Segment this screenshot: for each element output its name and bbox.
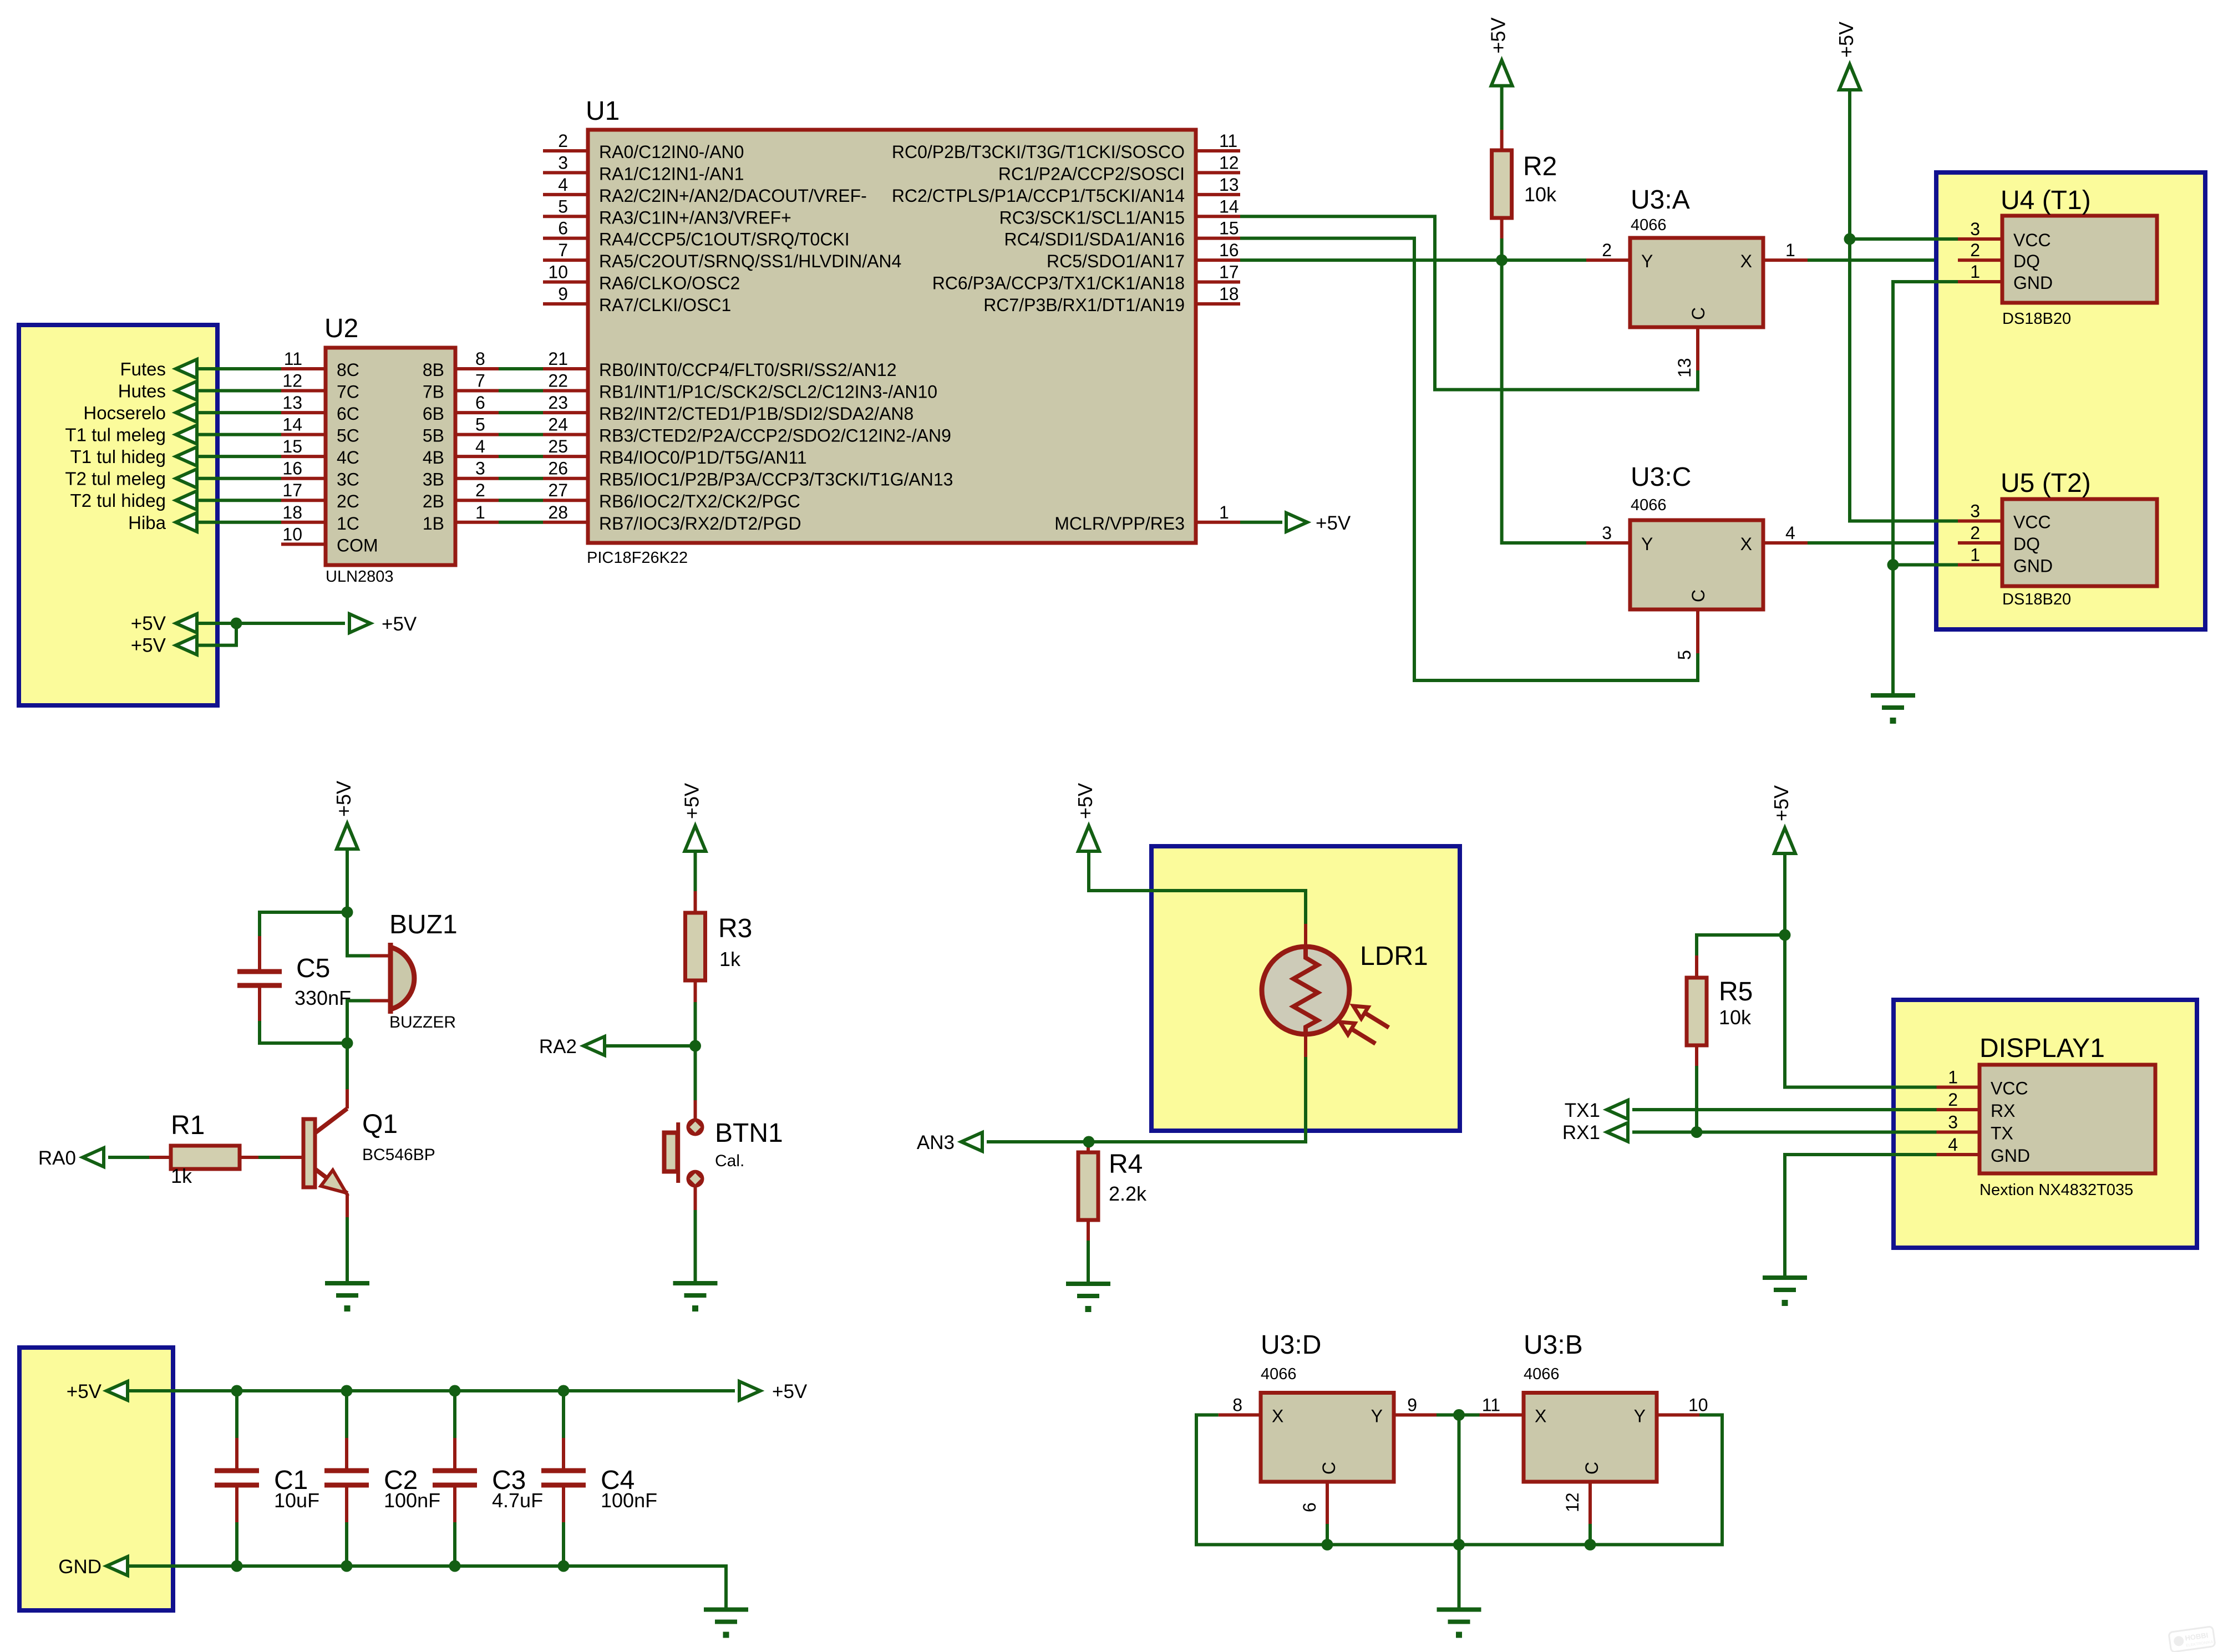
svg-text:12: 12 [282,371,302,391]
svg-text:RA1/C12IN1-/AN1: RA1/C12IN1-/AN1 [599,164,744,184]
svg-text:U5 (T2): U5 (T2) [2001,469,2091,498]
svg-text:14: 14 [1219,196,1239,216]
svg-text:Y: Y [1371,1406,1383,1426]
svg-text:4C: 4C [337,448,359,467]
svg-text:6: 6 [475,393,485,413]
svg-text:Q1: Q1 [362,1110,398,1139]
svg-text:4066: 4066 [1261,1365,1297,1383]
svg-text:5C: 5C [337,426,359,446]
svg-text:1: 1 [1970,545,1980,565]
svg-text:6C: 6C [337,404,359,424]
svg-text:U3:A: U3:A [1631,185,1690,215]
svg-text:2C: 2C [337,491,359,511]
svg-text:RA0: RA0 [38,1147,76,1169]
svg-text:2: 2 [1948,1090,1958,1110]
svg-text:13: 13 [1674,358,1694,378]
svg-text:RB0/INT0/CCP4/FLT0/SRI/SS2/AN1: RB0/INT0/CCP4/FLT0/SRI/SS2/AN12 [599,360,896,380]
svg-text:+5V: +5V [772,1381,808,1402]
svg-text:Hiba: Hiba [128,512,166,533]
svg-text:3C: 3C [337,470,359,490]
svg-text:5: 5 [1674,650,1694,660]
svg-text:BUZ1: BUZ1 [389,910,458,939]
svg-text:Hocserelo: Hocserelo [83,403,166,423]
svg-text:4: 4 [558,175,568,195]
svg-text:6: 6 [558,218,568,238]
svg-text:5B: 5B [423,426,444,446]
svg-text:4: 4 [1948,1135,1958,1155]
svg-text:X: X [1740,534,1752,554]
svg-text:R2: R2 [1523,152,1557,181]
svg-text:VCC: VCC [2013,230,2051,250]
svg-text:+5V: +5V [1074,783,1097,819]
svg-text:1: 1 [475,502,485,522]
svg-text:PIC18F26K22: PIC18F26K22 [587,549,688,567]
svg-text:U4 (T1): U4 (T1) [2001,186,2091,215]
svg-text:X: X [1740,251,1752,271]
svg-text:12: 12 [1219,153,1239,172]
svg-text:TX1: TX1 [1565,1100,1600,1121]
svg-text:5: 5 [475,415,485,435]
svg-text:C: C [1319,1462,1339,1475]
svg-text:8B: 8B [423,360,444,380]
svg-text:1: 1 [1219,502,1229,522]
svg-text:RC7/P3B/RX1/DT1/AN19: RC7/P3B/RX1/DT1/AN19 [983,295,1185,315]
svg-text:MCLR/VPP/RE3: MCLR/VPP/RE3 [1054,514,1185,533]
svg-text:U3:C: U3:C [1631,462,1691,492]
svg-text:Y: Y [1634,1406,1646,1426]
svg-text:Cal.: Cal. [715,1152,744,1170]
svg-text:DQ: DQ [2013,251,2040,271]
svg-text:U2: U2 [324,314,358,343]
svg-text:16: 16 [1219,240,1239,260]
svg-text:Futes: Futes [120,359,166,379]
svg-text:18: 18 [1219,284,1239,304]
svg-text:X: X [1272,1406,1283,1426]
svg-text:R1: R1 [171,1111,205,1140]
svg-text:RA4/CCP5/C1OUT/SRQ/T0CKI: RA4/CCP5/C1OUT/SRQ/T0CKI [599,230,850,250]
svg-text:LDR1: LDR1 [1360,942,1428,971]
svg-text:U1: U1 [586,96,620,126]
svg-text:VCC: VCC [2013,512,2051,532]
svg-text:RA2: RA2 [539,1036,577,1058]
svg-text:+5V: +5V [1316,512,1351,534]
svg-text:RC5/SDO1/AN17: RC5/SDO1/AN17 [1047,251,1185,271]
svg-text:4066: 4066 [1631,216,1667,234]
svg-text:24: 24 [548,415,568,435]
svg-text:C: C [1688,307,1708,320]
svg-text:U3:B: U3:B [1524,1330,1583,1360]
svg-text:RB2/INT2/CTED1/P1B/SDI2/SDA2/A: RB2/INT2/CTED1/P1B/SDI2/SDA2/AN8 [599,404,913,424]
svg-text:DISPLAY1: DISPLAY1 [1980,1034,2105,1063]
svg-text:2: 2 [1970,240,1980,260]
svg-text:DS18B20: DS18B20 [2002,591,2071,608]
svg-text:Y: Y [1641,534,1653,554]
svg-text:R5: R5 [1719,977,1753,1007]
svg-text:17: 17 [282,480,302,500]
svg-text:R4: R4 [1109,1150,1143,1179]
svg-text:RA3/C1IN+/AN3/VREF+: RA3/C1IN+/AN3/VREF+ [599,207,791,227]
svg-text:7C: 7C [337,382,359,402]
svg-text:BTN1: BTN1 [715,1119,783,1148]
svg-text:12: 12 [1562,1492,1582,1512]
svg-text:+5V: +5V [131,635,166,657]
svg-text:10uF: 10uF [274,1489,319,1512]
svg-text:RA7/CLKI/OSC1: RA7/CLKI/OSC1 [599,295,731,315]
svg-text:T1 tul meleg: T1 tul meleg [65,425,166,445]
svg-text:X: X [1535,1406,1546,1426]
svg-text:3: 3 [475,459,485,479]
svg-text:RA5/C2OUT/SRNQ/SS1/HLVDIN/AN4: RA5/C2OUT/SRNQ/SS1/HLVDIN/AN4 [599,251,901,271]
svg-text:8: 8 [1232,1395,1242,1415]
svg-text:RB7/IOC3/RX2/DT2/PGD: RB7/IOC3/RX2/DT2/PGD [599,514,801,533]
svg-text:RA6/CLKO/OSC2: RA6/CLKO/OSC2 [599,273,740,293]
svg-text:1: 1 [1785,240,1795,260]
svg-text:T2 tul meleg: T2 tul meleg [65,469,166,489]
svg-text:3: 3 [558,153,568,172]
svg-text:2: 2 [1970,523,1980,543]
svg-text:16: 16 [282,459,302,479]
svg-text:ULN2803: ULN2803 [326,568,394,586]
svg-text:3: 3 [1970,219,1980,239]
svg-text:C: C [1688,589,1708,602]
svg-text:2B: 2B [423,491,444,511]
svg-text:VCC: VCC [1991,1079,2028,1099]
svg-text:1B: 1B [423,514,444,533]
svg-text:1C: 1C [337,514,359,533]
svg-text:RC4/SDI1/SDA1/AN16: RC4/SDI1/SDA1/AN16 [1004,230,1185,250]
svg-text:RC3/SCK1/SCL1/AN15: RC3/SCK1/SCL1/AN15 [999,207,1185,227]
svg-text:RB5/IOC1/P2B/P3A/CCP3/T3CKI/T1: RB5/IOC1/P2B/P3A/CCP3/T3CKI/T1G/AN13 [599,470,953,490]
svg-text:2.2k: 2.2k [1109,1182,1147,1205]
svg-text:11: 11 [1482,1395,1500,1415]
svg-text:RB3/CTED2/P2A/CCP2/SDO2/C12IN2: RB3/CTED2/P2A/CCP2/SDO2/C12IN2-/AN9 [599,426,951,446]
svg-text:3: 3 [1970,501,1980,521]
svg-text:15: 15 [1219,218,1239,238]
svg-text:4: 4 [475,436,485,456]
svg-text:13: 13 [1219,175,1239,195]
svg-text:+5V: +5V [332,781,355,817]
svg-text:RC6/P3A/CCP3/TX1/CK1/AN18: RC6/P3A/CCP3/TX1/CK1/AN18 [932,273,1185,293]
svg-text:GND: GND [2013,556,2053,576]
svg-text:COM: COM [337,535,378,555]
svg-text:RB1/INT1/P1C/SCK2/SCL2/C12IN3-: RB1/INT1/P1C/SCK2/SCL2/C12IN3-/AN10 [599,382,937,402]
svg-text:11: 11 [284,349,302,369]
svg-text:RC0/P2B/T3CKI/T3G/T1CKI/SOSCO: RC0/P2B/T3CKI/T3G/T1CKI/SOSCO [892,142,1185,162]
svg-text:9: 9 [1407,1395,1417,1415]
svg-text:21: 21 [548,349,568,369]
svg-text:RX1: RX1 [1562,1122,1600,1143]
svg-text:RC1/P2A/CCP2/SOSCI: RC1/P2A/CCP2/SOSCI [998,164,1185,184]
svg-text:RB4/IOC0/P1D/T5G/AN11: RB4/IOC0/P1D/T5G/AN11 [599,448,807,467]
svg-text:T2 tul hideg: T2 tul hideg [70,490,166,511]
svg-text:+5V: +5V [681,783,703,819]
svg-text:DQ: DQ [2013,534,2040,554]
svg-text:RX: RX [1991,1101,2015,1121]
svg-text:7: 7 [558,240,568,260]
svg-text:27: 27 [548,480,568,500]
svg-text:C5: C5 [296,954,330,983]
svg-text:T1 tul hideg: T1 tul hideg [70,446,166,467]
svg-text:100nF: 100nF [384,1489,440,1512]
svg-text:+5V: +5V [382,613,417,635]
svg-text:+5V: +5V [131,613,166,634]
svg-text:4.7uF: 4.7uF [492,1489,543,1512]
svg-text:1: 1 [1970,262,1980,282]
svg-text:DS18B20: DS18B20 [2002,310,2071,328]
svg-text:10: 10 [548,262,568,282]
svg-text:AN3: AN3 [917,1132,955,1153]
svg-text:18: 18 [282,502,302,522]
svg-text:TX: TX [1991,1124,2013,1143]
svg-text:2: 2 [558,131,568,151]
svg-text:1k: 1k [719,948,741,970]
svg-text:25: 25 [548,436,568,456]
svg-text:15: 15 [282,436,302,456]
svg-text:+5V: +5V [67,1381,102,1402]
svg-text:1: 1 [1948,1068,1958,1087]
svg-text:28: 28 [548,502,568,522]
svg-text:Hutes: Hutes [118,381,166,401]
svg-text:GND: GND [1991,1146,2030,1166]
svg-text:5: 5 [558,196,568,216]
svg-text:C: C [1582,1462,1602,1475]
svg-text:BUZZER: BUZZER [389,1013,456,1031]
svg-text:10: 10 [282,524,302,544]
svg-text:17: 17 [1219,262,1239,282]
svg-text:R3: R3 [718,914,752,943]
svg-text:RA2/C2IN+/AN2/DACOUT/VREF-: RA2/C2IN+/AN2/DACOUT/VREF- [599,186,867,206]
svg-text:GND: GND [2013,273,2053,293]
svg-text:RC2/CTPLS/P1A/CCP1/T5CKI/AN14: RC2/CTPLS/P1A/CCP1/T5CKI/AN14 [892,186,1185,206]
svg-text:2: 2 [1602,240,1612,260]
svg-text:7B: 7B [423,382,444,402]
svg-text:RA0/C12IN0-/AN0: RA0/C12IN0-/AN0 [599,142,744,162]
svg-text:7: 7 [475,371,485,391]
svg-text:6: 6 [1300,1502,1319,1512]
svg-text:RB6/IOC2/TX2/CK2/PGC: RB6/IOC2/TX2/CK2/PGC [599,491,800,511]
svg-text:4066: 4066 [1631,496,1667,514]
svg-text:23: 23 [548,393,568,413]
svg-text:10: 10 [1688,1395,1708,1415]
svg-text:U3:D: U3:D [1261,1330,1321,1360]
svg-text:26: 26 [548,459,568,479]
svg-text:Y: Y [1641,251,1653,271]
svg-text:GND: GND [58,1556,101,1578]
svg-text:+5V: +5V [1487,18,1510,54]
svg-text:BC546BP: BC546BP [362,1146,435,1164]
svg-text:13: 13 [282,393,302,413]
svg-text:8C: 8C [337,360,359,380]
svg-text:Nextion NX4832T035: Nextion NX4832T035 [1980,1181,2133,1199]
svg-text:+5V: +5V [1835,22,1857,58]
svg-text:3: 3 [1602,523,1612,543]
svg-text:2: 2 [475,480,485,500]
svg-text:4: 4 [1785,523,1795,543]
svg-text:14: 14 [282,415,302,435]
svg-text:100nF: 100nF [601,1489,657,1512]
svg-text:22: 22 [548,371,568,391]
svg-text:6B: 6B [423,404,444,424]
svg-text:4066: 4066 [1524,1365,1560,1383]
svg-text:4B: 4B [423,448,444,467]
svg-text:8: 8 [475,349,485,369]
svg-text:11: 11 [1219,131,1237,151]
svg-text:3: 3 [1948,1112,1958,1132]
svg-text:9: 9 [558,284,568,304]
svg-text:10k: 10k [1719,1006,1752,1029]
svg-text:10k: 10k [1524,183,1557,206]
svg-text:+5V: +5V [1770,785,1793,821]
svg-text:330nF: 330nF [295,987,351,1009]
svg-text:1k: 1k [171,1165,192,1187]
svg-text:3B: 3B [423,470,444,490]
